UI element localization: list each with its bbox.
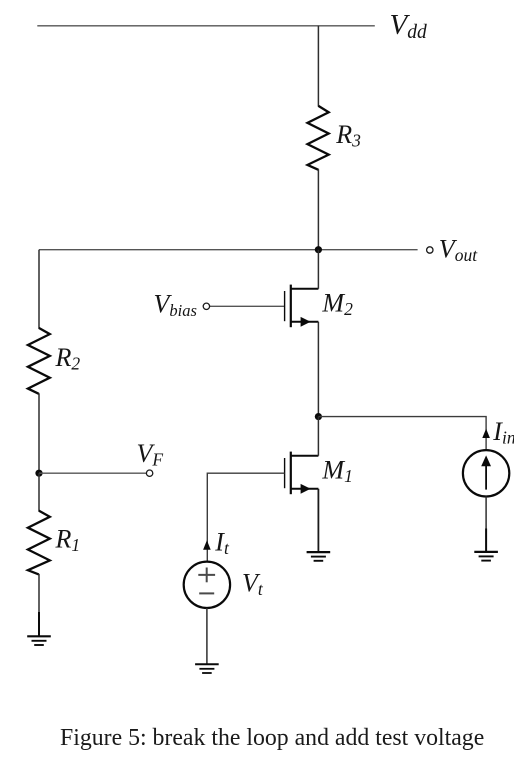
wire R3 bottom lead <box>317 169 319 250</box>
arrow Iin <box>482 429 490 438</box>
wire left branch vertical <box>38 250 40 329</box>
svg-text:R2: R2 <box>55 343 81 374</box>
wire Vbias lead <box>207 305 285 307</box>
wire M2 source down <box>317 322 319 417</box>
ground Iin <box>474 529 498 561</box>
wire R2 bottom lead to node VF <box>38 393 40 473</box>
wire Vt to ground <box>206 608 208 664</box>
svg-text:Vdd: Vdd <box>390 9 427 43</box>
resistor R1 <box>28 511 50 575</box>
terminal VF <box>146 470 152 476</box>
resistor R2 <box>28 328 50 394</box>
ground M1 <box>307 552 331 561</box>
svg-text:R3: R3 <box>335 120 361 151</box>
svg-text:M2: M2 <box>321 288 353 319</box>
svg-text:It: It <box>214 528 230 559</box>
wire node to Iin corner <box>318 417 486 451</box>
svg-text:R1: R1 <box>55 525 81 556</box>
voltage source Vt <box>184 562 230 608</box>
svg-text:Vout: Vout <box>439 235 478 266</box>
svg-text:M1: M1 <box>321 456 352 487</box>
node VF junction <box>35 470 42 477</box>
wire R3 top lead <box>317 26 319 107</box>
resistor R3 <box>308 106 329 170</box>
wire R1 bottom lead <box>38 574 40 613</box>
wire Vdd rail <box>37 25 375 27</box>
wire M1 source down <box>317 489 319 552</box>
svg-text:VF: VF <box>137 439 164 470</box>
node Vout junction <box>315 246 322 253</box>
ground Vt <box>195 664 219 673</box>
wire Iin to ground <box>485 497 487 530</box>
transistor M2 <box>285 285 319 328</box>
current source Iin <box>463 450 509 496</box>
transistor M1 <box>285 452 319 495</box>
terminal Vbias <box>203 303 209 309</box>
arrow It <box>203 540 211 550</box>
wire M1 drain up <box>317 417 319 456</box>
svg-text:Figure 5: break the loop and a: Figure 5: break the loop and add test vo… <box>60 725 484 751</box>
wire Vout horizontal rail <box>39 249 418 251</box>
wire M2 drain up <box>317 250 319 289</box>
node mid junction <box>315 413 322 420</box>
ground R1 <box>27 612 51 645</box>
svg-text:Vt: Vt <box>242 569 264 600</box>
svg-text:Iin: Iin <box>492 417 514 448</box>
wire R1 top lead <box>38 473 40 511</box>
terminal Vout <box>427 247 433 253</box>
wire M1 gate <box>207 473 284 561</box>
wire VF stub <box>39 472 146 474</box>
svg-text:Vbias: Vbias <box>154 290 197 321</box>
